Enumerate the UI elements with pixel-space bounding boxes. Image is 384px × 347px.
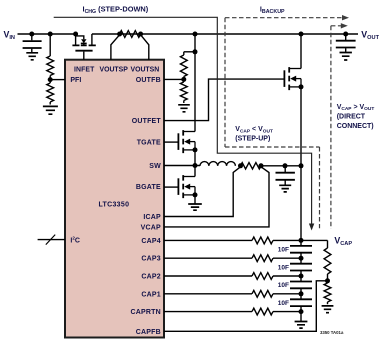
svg-text:SW: SW: [149, 163, 161, 170]
svg-text:ICAP: ICAP: [143, 214, 161, 221]
svg-text:CONNECT): CONNECT): [337, 123, 374, 130]
transistor TGATE M2 source junction: [193, 147, 198, 152]
node INFET source junction: [73, 32, 78, 37]
resistor CAPRTN balancer: [252, 308, 273, 315]
resistor CAP4 balancer: [252, 237, 273, 244]
resistor OUTFB lower: [183, 79, 185, 82]
svg-text:PFI: PFI: [70, 77, 81, 84]
svg-text:CAPRTN: CAPRTN: [131, 309, 161, 316]
wire VCAP pin route: [164, 167, 269, 227]
wire IBACKUP dashed path: [225, 17, 344, 19]
wire VIN rail left segment: [18, 33, 76, 35]
node ICAP sense right: [259, 163, 264, 168]
svg-text:INFET: INFET: [74, 67, 95, 74]
transistor OUTFET M1 drain lead: [289, 68, 301, 70]
wire supercap stack vertical: [300, 240, 302, 321]
transistor OUTFET M1 source lead: [289, 86, 301, 88]
ground VOUT cap: [340, 53, 352, 61]
transistor OUTFET M1 source junction: [299, 84, 304, 89]
wire PFI pin: [50, 79, 65, 81]
transistor Q1 INFET channel segments: [72, 44, 95, 46]
wire ICAP pin route: [164, 167, 241, 217]
svg-text:I2C: I2C: [70, 236, 80, 245]
svg-text:10F: 10F: [278, 282, 289, 289]
svg-text:3350 TA01a: 3350 TA01a: [320, 330, 344, 335]
capacitor C2 supercap 10F: [290, 264, 312, 271]
node PFI divider top junction: [48, 32, 53, 37]
transistor BGATE M3 source lead: [183, 194, 195, 196]
resistor CAP2 balancer: [252, 273, 273, 280]
transistor TGATE M2 source lead: [183, 149, 195, 151]
wire VCAP node to divider: [301, 239, 328, 241]
svg-text:LTC3350: LTC3350: [99, 201, 130, 208]
capacitor VCAP ceramic: [284, 166, 286, 172]
wire step-up dashed bottom edge: [225, 146, 320, 148]
wire CAPRTN pin line: [164, 311, 252, 313]
node stack CAP1: [299, 291, 304, 296]
wire ICHG arrowhead: [309, 224, 314, 231]
node ICAP sense left: [238, 163, 243, 168]
node OUTFET drain at rail: [299, 32, 304, 37]
wire direct-connect arrowhead: [341, 23, 348, 28]
ground ceramic cap: [279, 185, 291, 192]
wire VOUTSP pin to rail: [111, 35, 120, 60]
ground PFI divider: [43, 106, 58, 114]
svg-text:CAP1: CAP1: [141, 291, 160, 298]
resistor CAP1 balancer: [252, 290, 273, 297]
resistor VCAP divider lower: [327, 281, 329, 283]
wire direct-connect dashed arrow: [331, 25, 343, 27]
node VIN input cap junction: [29, 32, 34, 37]
capacitor C1 supercap 10F: [290, 246, 312, 253]
wire ICHG annotation bracket: [54, 17, 312, 224]
svg-text:VCAP: VCAP: [141, 224, 161, 231]
capacitor VOUT bypass: [345, 34, 347, 40]
resistor RSNSC charge-current sense: [120, 31, 141, 38]
node sense resistor left: [117, 32, 122, 37]
svg-text:10F: 10F: [278, 300, 289, 307]
transistor Q1 INFET source stub: [75, 34, 77, 45]
node OUTFB divider tap on vertical: [193, 49, 198, 54]
svg-text:10F: 10F: [278, 264, 289, 271]
svg-text:VOUTSN: VOUTSN: [131, 67, 160, 74]
diode Q1 body anode wire: [76, 36, 84, 39]
node divider mid: [325, 278, 330, 283]
wire OUTFB divider jog: [184, 51, 195, 53]
wire main top rail: [92, 33, 358, 35]
capacitor input bypass: [31, 34, 33, 40]
resistor PFI upper: [49, 34, 51, 56]
transistor BGATE M3 channel segments: [182, 175, 184, 198]
node stack CAP3: [299, 256, 304, 261]
op-amp U1 LTC3350 IC body: [65, 60, 164, 338]
wire OUTFET source down to VCAP node: [300, 87, 302, 241]
transistor TGATE M2 channel segments: [182, 130, 184, 153]
node stack CAP2: [299, 274, 304, 279]
node stack CAPRTN: [299, 309, 304, 314]
wire TGATE pin: [164, 141, 178, 143]
wire I2C bus slash: [46, 235, 55, 245]
wire CAP4 pin line: [164, 239, 252, 241]
ground BGATE source: [188, 204, 202, 210]
ground OUTFB divider: [178, 105, 190, 112]
capacitor C3 supercap 10F: [290, 282, 312, 289]
svg-text:10F: 10F: [278, 247, 289, 254]
transistor Q1 INFET drain stub: [91, 34, 93, 45]
wire VOUT vertical to TGATE drain: [194, 34, 196, 132]
transistor OUTFET M1 channel segments: [288, 67, 290, 90]
transistor OUTFET M1 gate bar: [283, 70, 285, 87]
node SW junction: [193, 163, 198, 168]
wire I2C pin: [38, 239, 65, 241]
node VCAP line to OUTFET source: [299, 163, 304, 168]
transistor TGATE M2 drain lead: [183, 131, 195, 133]
ground supercap stack: [295, 322, 308, 329]
node stack CAP4: [299, 238, 304, 243]
node VOUT cap junction: [343, 32, 348, 37]
resistor RSNSI: [241, 163, 262, 169]
svg-text:TGATE: TGATE: [137, 140, 161, 147]
wire CAP2 to stack: [273, 275, 301, 277]
wire SW pin: [164, 165, 200, 167]
wire CAP4 to stack: [273, 239, 301, 241]
resistor PFI lower: [49, 80, 51, 83]
wire OUTFET pin to gate: [164, 79, 284, 121]
transistor TGATE M2 body arrow: [184, 139, 190, 145]
svg-text:VOUTSP: VOUTSP: [100, 67, 129, 74]
wire OUTFB pin: [164, 78, 184, 80]
capacitor C4 supercap 10F: [290, 299, 312, 306]
node OUTFB tap: [181, 77, 186, 82]
wire BGATE pin: [164, 186, 178, 188]
svg-text:OUTFET: OUTFET: [132, 118, 162, 125]
wire CAP1 pin line: [164, 293, 252, 295]
wire direct-connect dashed vertical: [330, 26, 332, 229]
svg-text:BGATE: BGATE: [136, 184, 161, 191]
wire CAP2 pin line: [164, 275, 252, 277]
transistor TGATE M2 gate bar: [177, 133, 179, 150]
wire step-up dashed right edge: [319, 147, 321, 228]
node sense resistor right: [138, 32, 143, 37]
diode Q1 body triangle: [81, 39, 86, 43]
wire sense to VCAP line: [261, 165, 301, 167]
wire INFET gate to pin: [83, 52, 85, 60]
svg-text:(STEP-UP): (STEP-UP): [235, 136, 270, 143]
transistor BGATE M3 drain lead: [183, 176, 195, 178]
svg-text:(DIRECT: (DIRECT: [337, 113, 366, 120]
resistor VCAP divider upper: [327, 240, 329, 248]
wire CAPFB pin route: [164, 281, 328, 332]
svg-text:OUTFB: OUTFB: [136, 77, 161, 84]
wire OUTFET drain to rail: [300, 34, 302, 69]
node PFI divider mid: [48, 77, 53, 82]
diode Q1 body cathode bar: [81, 42, 87, 44]
svg-text:CAP4: CAP4: [141, 238, 160, 245]
svg-text:CAP3: CAP3: [141, 256, 160, 263]
transistor OUTFET M1 body arrow: [290, 76, 296, 82]
ground input cap: [26, 53, 38, 60]
inductor L1: [200, 162, 235, 166]
node ceramic cap junction: [283, 163, 288, 168]
wire TGATE source to SW: [194, 150, 196, 166]
ground VCAP divider: [322, 306, 334, 313]
svg-text:CAP2: CAP2: [141, 274, 160, 281]
transistor Q1 INFET gate bar: [75, 50, 92, 52]
node rail to TGATE branch: [193, 32, 198, 37]
wire BGATE source to ground: [194, 195, 196, 204]
wire CAP3 pin line: [164, 257, 252, 259]
resistor OUTFB upper: [183, 52, 185, 55]
wire CAPRTN to stack: [273, 311, 301, 313]
wire CAP1 to stack: [273, 293, 301, 295]
wire CAP3 to stack: [273, 257, 301, 259]
wire IBACKUP arrowhead: [342, 15, 349, 20]
wire step-up dashed left edge: [224, 18, 226, 147]
wire VOUTSN pin to rail: [141, 35, 149, 60]
transistor BGATE M3 body arrow: [184, 184, 190, 190]
resistor CAP3 balancer: [252, 255, 273, 262]
transistor BGATE M3 source junction: [193, 192, 198, 197]
svg-text:CAPFB: CAPFB: [136, 329, 161, 336]
transistor BGATE M3 gate bar: [177, 178, 179, 195]
wire SW to BGATE drain: [194, 166, 196, 177]
